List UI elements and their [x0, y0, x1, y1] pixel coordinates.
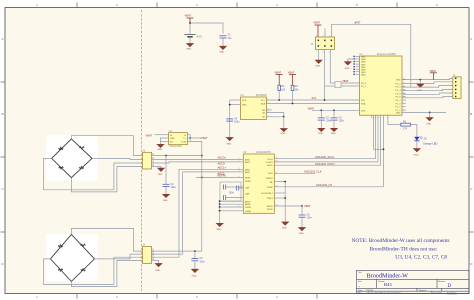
wire DGND stub — [220, 206, 244, 208]
svg-text:10: 10 — [276, 185, 278, 187]
svg-text:5: 5 — [403, 93, 404, 95]
bridge resistor R b — [81, 244, 86, 246]
ground (BLE left) — [345, 62, 352, 70]
ground (J1 gnd row) — [426, 118, 433, 126]
svg-text:7: 7 — [268, 115, 269, 117]
capacitor C6 — [331, 110, 345, 128]
BLE right pins stubs — [402, 79, 406, 110]
svg-text:GND: GND — [170, 138, 175, 140]
svg-text:GND: GND — [315, 66, 320, 68]
wire AIN1- drop to J4 — [155, 172, 183, 254]
svg-text:COM: COM — [181, 141, 186, 143]
svg-text:GND: GND — [192, 275, 197, 277]
ground (near J1) — [417, 84, 424, 92]
svg-text:5: 5 — [329, 35, 330, 37]
svg-text:NC: NC — [170, 141, 174, 143]
svg-text:VBAT: VBAT — [308, 107, 315, 111]
svg-text:VDD: VDD — [361, 110, 366, 112]
svg-text:3: 3 — [322, 35, 323, 37]
junction (C5) — [320, 109, 322, 111]
capacitor C1 — [220, 33, 233, 46]
svg-text:ADS1220_SCLK: ADS1220_SCLK — [315, 155, 335, 159]
wire J3 pin3 to AIN1 — [155, 162, 196, 163]
svg-text:REFP: REFP — [245, 177, 251, 179]
svg-text:DGND: DGND — [245, 211, 252, 213]
svg-text:VBAT: VBAT — [185, 14, 192, 18]
wire J2 pin5 down to VBAT jumper wire — [330, 50, 335, 84]
svg-text:REFN: REFN — [245, 181, 251, 183]
wire gnd drop — [419, 80, 421, 84]
svg-text:Title: Title — [358, 271, 362, 274]
wire DVDD to VBAT — [274, 205, 302, 207]
wire bridge1 right to J3 pin2 — [92, 158, 143, 159]
wire J3 pin2 to AIN0 — [155, 158, 196, 160]
wire nRST from header to BLE right — [332, 24, 411, 87]
svg-text:CAP: CAP — [245, 187, 250, 190]
svg-text:GND: GND — [186, 49, 191, 51]
BLE bottom pins — [371, 115, 388, 187]
svg-text:C:\Users\..\BroodMinder-Design: C:\Users\..\BroodMinder-Design5.SchDoc — [366, 292, 401, 295]
junction — [383, 148, 385, 150]
bridge resistor R a — [58, 245, 63, 247]
svg-text:22: 22 — [371, 118, 373, 120]
svg-text:1: 1 — [316, 35, 317, 37]
wire AIN0 — [196, 158, 243, 160]
wire J2 pin3 down to SCL — [324, 50, 326, 101]
pin numbers ADS left — [239, 158, 240, 208]
svg-text:5: 5 — [239, 206, 240, 208]
wire GND stub — [230, 104, 241, 106]
ground (J4) — [155, 264, 162, 272]
connector J2 programming header — [311, 37, 335, 50]
svg-text:100n: 100n — [171, 186, 177, 189]
svg-text:7: 7 — [403, 111, 404, 113]
svg-text:13: 13 — [276, 160, 278, 162]
wire J2 pin1 to ground — [318, 50, 320, 61]
svg-text:GND: GND — [345, 68, 350, 70]
junction — [284, 181, 286, 183]
svg-text:BroodMinder-TH does not use:: BroodMinder-TH does not use: — [370, 246, 438, 252]
svg-text:TEMP: TEMP — [267, 187, 273, 189]
pin numbers BLE bottom — [371, 118, 388, 120]
pin numbers sensor — [268, 99, 269, 118]
svg-text:2: 2 — [403, 82, 404, 84]
svg-text:DrDY: DrDY — [268, 172, 274, 175]
svg-text:GND: GND — [157, 149, 162, 151]
svg-text:GND: GND — [318, 133, 323, 135]
wire DIN to BLE — [274, 164, 380, 166]
svg-text:10u: 10u — [228, 37, 233, 40]
svg-text:7: 7 — [239, 160, 240, 162]
junction — [419, 79, 421, 81]
svg-text:P0_3: P0_3 — [396, 87, 402, 89]
svg-text:100n: 100n — [199, 260, 205, 263]
wire U3 right pins tie — [188, 135, 191, 142]
svg-text:AVSS: AVSS — [245, 203, 251, 206]
note text — [352, 238, 450, 261]
svg-text:12: 12 — [276, 157, 278, 159]
svg-text:CLK0/XTAL1: CLK0/XTAL1 — [261, 192, 274, 195]
bridge resistor R d — [81, 269, 86, 271]
svg-text:BLE113-A-M256K: BLE113-A-M256K — [377, 53, 396, 56]
svg-text:VBAT: VBAT — [314, 21, 321, 25]
svg-text:VBAT: VBAT — [430, 69, 437, 73]
svg-text:6: 6 — [268, 111, 269, 113]
svg-text:GND: GND — [155, 270, 160, 272]
wires BLE to J1 rows (staircase) — [402, 82, 452, 98]
svg-text:A: A — [1, 37, 3, 41]
junction (REFP bus) — [201, 177, 203, 179]
svg-text:P0_2: P0_2 — [396, 83, 402, 85]
ground (C5) — [318, 128, 325, 135]
svg-text:B: B — [470, 112, 472, 116]
svg-text:VREFO: VREFO — [266, 178, 274, 180]
junction — [284, 197, 286, 199]
svg-text:ADC1+: ADC1+ — [218, 166, 227, 170]
junctions on gnd bus — [219, 200, 221, 202]
ADC U2 ADS1220 — [243, 151, 274, 213]
capacitor C4 — [226, 117, 240, 123]
wire jumper second — [325, 85, 336, 87]
wire U3 nc pin — [161, 140, 169, 142]
svg-text:TS5A23159: TS5A23159 — [169, 145, 182, 148]
svg-text:P0_6: P0_6 — [396, 97, 402, 99]
wire battery stem — [189, 23, 191, 34]
dashed separator line — [141, 10, 143, 292]
bridge resistor R a — [58, 147, 63, 149]
wire AIN1 — [196, 161, 243, 163]
pin numbers J2 — [316, 35, 330, 54]
power port VBAT (R3) — [275, 71, 283, 86]
junction (bus/J3 row1) — [201, 155, 203, 157]
svg-text:1: 1 — [403, 78, 404, 80]
svg-text:GND: GND — [299, 233, 304, 235]
wire J3 pin4 to gnd — [155, 167, 161, 169]
svg-text:BAT1: BAT1 — [197, 36, 203, 39]
svg-text:4: 4 — [322, 52, 323, 54]
connector J4 (load cell 2) — [143, 244, 156, 264]
svg-text:9: 9 — [383, 118, 384, 120]
svg-text:Drawn By:: Drawn By: — [434, 292, 443, 295]
wire BLE left gnd stub — [348, 59, 356, 62]
svg-text:SDA: SDA — [361, 102, 366, 105]
svg-text:ADS1220_CS: ADS1220_CS — [316, 183, 332, 187]
svg-text:GND: GND — [242, 104, 247, 106]
pin numbers BLE right — [403, 78, 404, 113]
svg-text:GND: GND — [216, 229, 221, 231]
wire J4 pin4 to gnd — [155, 260, 159, 263]
junction — [189, 137, 191, 139]
svg-text:P0_5: P0_5 — [396, 93, 402, 95]
wire J4 pin1 to bus end — [155, 250, 202, 252]
connector J3 (load cell 1) — [143, 150, 156, 170]
wire DOUT to BLE — [274, 161, 378, 163]
ground (LED) — [414, 149, 421, 157]
wire U3 gnd pin — [161, 138, 169, 141]
svg-text:5: 5 — [377, 118, 378, 120]
svg-text:B: B — [1, 112, 3, 116]
wire DGND2 stub — [220, 210, 244, 212]
pin numbers ADS right — [276, 157, 278, 206]
wire bridge2 top to J4 pin1 — [71, 228, 142, 251]
capacitor C2 — [163, 156, 177, 195]
ground (ADS left) — [216, 223, 223, 231]
svg-text:2: 2 — [316, 52, 317, 54]
ground (U3) — [157, 141, 164, 151]
svg-text:GND: GND — [414, 154, 419, 156]
sensor left bus — [229, 100, 231, 137]
wire A1 row to gnd — [266, 113, 283, 117]
ground (C8) — [299, 228, 306, 236]
svg-text:ADS1220_CLK: ADS1220_CLK — [304, 170, 322, 174]
wire row 193 — [274, 192, 285, 194]
wire VBAT to BLE VDD with caps — [312, 109, 360, 111]
svg-text:GND: GND — [426, 123, 431, 125]
svg-text:A: A — [470, 37, 472, 41]
svg-text:1: 1 — [268, 99, 269, 101]
wire AIN1+ drop to J4 — [155, 169, 179, 257]
svg-text:1: 1 — [387, 118, 388, 120]
power port VBAT (BLE right) — [430, 69, 437, 80]
svg-text:xTBAT: xTBAT — [200, 136, 208, 140]
wire CS to BLE — [274, 186, 383, 188]
svg-text:BroodMinder-W: BroodMinder-W — [367, 273, 409, 280]
wire AIN2 — [179, 168, 243, 170]
junction — [189, 22, 191, 24]
wire gnd stub — [429, 112, 431, 117]
svg-text:P0_0: P0_0 — [361, 83, 367, 85]
junction — [429, 112, 431, 114]
svg-text:Size: Size — [358, 281, 362, 283]
svg-text:11: 11 — [276, 172, 278, 174]
svg-text:GND: GND — [361, 75, 366, 77]
wire bridge1 left to J3 pin3 — [44, 158, 143, 189]
svg-text:16: 16 — [276, 205, 278, 207]
svg-text:GND: GND — [282, 228, 287, 230]
junction (J2/SCL) — [324, 99, 326, 101]
junction — [229, 104, 231, 106]
wire excitation bus — [190, 141, 202, 251]
svg-text:100n: 100n — [234, 121, 240, 124]
load cell bridge 1 — [46, 136, 98, 181]
svg-text:SCL: SCL — [312, 96, 318, 100]
svg-text:DRDY: DRDY — [267, 165, 274, 167]
svg-text:7: 7 — [380, 118, 381, 120]
svg-text:P0_1: P0_1 — [361, 86, 367, 88]
svg-text:File:: File: — [358, 293, 362, 295]
svg-text:ADS1220IPW: ADS1220IPW — [256, 151, 271, 154]
wire AIN3 — [183, 171, 244, 173]
svg-text:4: 4 — [403, 89, 404, 91]
wire AVDD stub — [220, 200, 244, 202]
ground (sensor addr) — [281, 129, 288, 136]
module U1 BLE113 — [360, 53, 403, 115]
wire down to gnd — [283, 117, 285, 129]
svg-text:Sheet of: Sheet of — [419, 289, 427, 292]
wire SDA — [266, 103, 359, 105]
svg-text:100n: 100n — [307, 217, 313, 220]
svg-text:Date:: Date: — [358, 289, 363, 292]
wire J2 middle top stub — [324, 29, 326, 38]
svg-text:Rich Morris: Rich Morris — [447, 292, 457, 295]
title block — [357, 270, 470, 294]
capacitor C5 — [318, 110, 332, 128]
BLE left NC pins — [353, 56, 359, 75]
LED D2 — [414, 136, 437, 148]
bridge resistor R b — [80, 147, 85, 149]
svg-text:NOTE: BroodMinder-W uses all c: NOTE: BroodMinder-W uses all components — [352, 238, 450, 244]
svg-text:SCLK: SCLK — [267, 159, 273, 161]
power port VBAT (R4) — [288, 71, 296, 86]
svg-text:Orange LED: Orange LED — [423, 141, 438, 145]
svg-text:P1_1: P1_1 — [396, 107, 402, 109]
svg-text:XTAL2: XTAL2 — [267, 197, 274, 200]
svg-text:VBAT: VBAT — [304, 204, 311, 208]
wire SCL — [266, 99, 359, 101]
ADS right gnd bus — [284, 182, 286, 222]
capacitor C8 — [299, 206, 313, 227]
svg-text:U3, U4, C2, C3, C7, C8: U3, U4, C2, C3, C7, C8 — [395, 255, 447, 261]
wire A2 row join — [266, 116, 283, 118]
wire REFP — [196, 176, 243, 178]
wire AVSS stub — [220, 203, 244, 205]
power port VBAT (battery) — [185, 14, 194, 23]
load cell bridge 2 — [46, 234, 98, 281]
svg-text:ADC0-: ADC0- — [218, 162, 226, 166]
ground (J3) — [158, 168, 165, 176]
ground (sensor bus) — [226, 138, 233, 146]
wire bridge1 top to J3 pin1 — [71, 136, 142, 156]
svg-text:174: 174 — [403, 127, 408, 130]
svg-text:3: 3 — [403, 85, 404, 87]
svg-text:3: 3 — [374, 118, 375, 120]
svg-text:D: D — [448, 284, 452, 289]
resistor R2 — [388, 121, 417, 137]
ground (C6) — [331, 128, 338, 135]
svg-text:P1_0: P1_0 — [396, 103, 402, 105]
wire VDD stub — [230, 99, 241, 101]
cap cluster box C3/C7 — [220, 182, 243, 201]
svg-text:REFP0: REFP0 — [218, 174, 227, 178]
svg-text:P0_7: P0_7 — [396, 100, 402, 102]
svg-text:2: 2 — [268, 102, 269, 104]
svg-text:VBAT: VBAT — [146, 133, 153, 137]
wire BLE bottom-right GND row — [402, 111, 446, 113]
wire row 181.6 — [274, 181, 285, 183]
svg-text:DOUT/: DOUT/ — [266, 162, 273, 164]
wire U3 V+ out — [188, 137, 200, 139]
svg-text:100n: 100n — [229, 191, 235, 194]
ground (ADS right) — [282, 222, 289, 230]
resistor R3 pullup — [278, 85, 286, 100]
svg-text:9: 9 — [239, 170, 240, 172]
svg-text:VBAT: VBAT — [342, 79, 349, 83]
ADS left gnd bus — [219, 201, 221, 223]
svg-text:4: 4 — [239, 176, 240, 178]
svg-text:GND: GND — [281, 133, 286, 135]
connector J1 — [451, 74, 462, 99]
svg-text:DGND: DGND — [245, 207, 252, 209]
junction — [301, 205, 303, 207]
junction (C6) — [333, 109, 335, 111]
svg-text:GND: GND — [226, 143, 231, 145]
bridge resistor R c — [59, 167, 64, 169]
wire VDD row to J1 pin1 — [402, 78, 453, 79]
svg-text:6: 6 — [329, 52, 330, 54]
wire bridge2 left to J4 pin3 — [44, 257, 143, 284]
bridge resistor R d — [79, 167, 84, 169]
wire bridge2 bottom to J4 pin4 — [71, 260, 142, 286]
svg-text:Revision: Revision — [438, 281, 445, 283]
junction (R3/SCL) — [278, 99, 280, 101]
svg-text:GND: GND — [163, 200, 168, 202]
svg-text:GND: GND — [396, 113, 401, 115]
svg-text:VDD: VDD — [242, 100, 247, 102]
svg-text:B43: B43 — [384, 282, 392, 287]
wire bridge2 right to J4 pin2 — [95, 254, 143, 259]
capacitor C9 — [191, 251, 205, 269]
svg-text:1/3/2016: 1/3/2016 — [366, 290, 373, 292]
ground (C9) — [192, 269, 199, 277]
wire SCLK to BLE — [274, 158, 375, 160]
junction (R4/SDA) — [292, 103, 294, 105]
wire row 198 — [274, 197, 285, 199]
wire alert row stub — [266, 109, 271, 111]
svg-text:nRST: nRST — [354, 20, 361, 24]
wire tie at 149.3 — [374, 148, 384, 150]
power port VBAT (J2 header) — [314, 21, 322, 37]
svg-text:6: 6 — [403, 96, 404, 98]
wire J3 pin1 to bus — [155, 155, 202, 157]
junction — [283, 116, 285, 118]
wire VBAT to U3 — [155, 134, 169, 136]
svg-text:GND: GND — [396, 79, 401, 81]
ground (J2) — [315, 60, 322, 67]
analog switch U3 — [169, 130, 188, 148]
svg-text:MCP9808: MCP9808 — [256, 94, 267, 97]
svg-text:GND: GND — [219, 52, 224, 54]
svg-text:ADC0+: ADC0+ — [218, 156, 227, 160]
battery BAT1 — [185, 35, 203, 43]
svg-text:P0_4: P0_4 — [396, 90, 402, 92]
ground (battery) — [186, 44, 193, 51]
jumper box — [335, 82, 341, 88]
svg-text:100n: 100n — [339, 120, 345, 123]
svg-text:1: 1 — [239, 200, 240, 202]
junction (C2 tap) — [165, 155, 167, 157]
svg-text:SDA: SDA — [261, 103, 266, 106]
temp sensor U4 MCP9808 — [240, 94, 267, 119]
ground (C1) — [219, 46, 226, 53]
svg-text:GND: GND — [158, 174, 163, 176]
svg-text:DVDD: DVDD — [267, 209, 273, 211]
svg-text:GND: GND — [331, 133, 336, 135]
wire bridge1 bottom to J3 pin4 — [71, 167, 142, 192]
svg-text:AVDD: AVDD — [267, 205, 273, 208]
ground (C2) — [163, 194, 170, 202]
resistor R4 pullup — [291, 85, 299, 103]
svg-text:AVDD: AVDD — [245, 200, 251, 203]
bridge resistor R c — [58, 269, 63, 271]
wire CLK stub — [274, 172, 315, 174]
wire VBAT to BLE P0_0 — [341, 82, 360, 84]
svg-text:CAP: CAP — [245, 193, 250, 196]
wire battery top — [190, 23, 223, 34]
junction (C9 tap) — [194, 250, 196, 252]
